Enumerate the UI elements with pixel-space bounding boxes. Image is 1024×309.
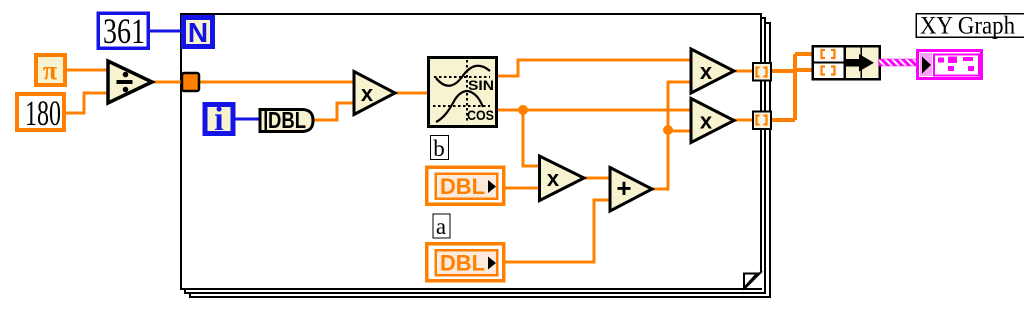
multiply1 node: [354, 72, 395, 115]
wire 180 to divide: [64, 93, 110, 113]
svg-text:x: x: [700, 59, 713, 84]
sincos node: [429, 58, 497, 127]
wire sin output: [495, 60, 692, 76]
for-loop frame page 3: [190, 23, 770, 297]
constant 180: [17, 93, 64, 133]
bundle node: [812, 45, 880, 79]
for-loop frame page 2: [185, 18, 765, 293]
divide node: [108, 61, 152, 103]
svg-text:N: N: [188, 17, 208, 48]
wire a to add: [502, 200, 612, 262]
control b DBL: [427, 167, 504, 204]
label a: [433, 214, 450, 239]
pi constant: [36, 55, 65, 85]
tunnel1: [753, 63, 771, 81]
wire cos branch down to multiply2: [523, 110, 542, 166]
page curl corner: [744, 271, 762, 289]
svg-text:x: x: [547, 166, 560, 191]
svg-text:SIN: SIN: [468, 78, 494, 93]
svg-text:x: x: [700, 109, 713, 134]
i iteration terminal: [205, 101, 233, 138]
wire multiply2 to add: [583, 177, 612, 180]
svg-text:DBL: DBL: [440, 174, 485, 199]
left tunnel: [182, 73, 199, 91]
wire cos output: [495, 109, 692, 112]
wire multiply3 to tunnel1: [733, 70, 755, 73]
svg-text:361: 361: [103, 11, 145, 51]
svg-text:i: i: [214, 101, 223, 138]
junction dot cos: [518, 105, 528, 115]
wire tunnel1 to bundle riser: [770, 54, 814, 120]
wire i to DBL convert: [233, 118, 262, 121]
svg-text:b: b: [433, 136, 445, 161]
constant 361: [98, 11, 148, 51]
svg-text:DBL: DBL: [440, 251, 485, 276]
cluster wire to XY graph: [879, 59, 919, 66]
svg-text:DBL: DBL: [268, 107, 306, 133]
wire pi to divide: [64, 69, 110, 72]
control a DBL: [427, 244, 504, 281]
wire riser branch to multiply4: [668, 130, 692, 133]
wire b to multiply2: [502, 187, 542, 190]
multiply4 node: [691, 99, 734, 143]
label b: [431, 136, 449, 162]
svg-text:180: 180: [25, 93, 61, 133]
DBL conversion node: [260, 107, 313, 133]
multiply3 node: [691, 49, 734, 93]
svg-text:a: a: [436, 214, 446, 239]
add node: [610, 168, 652, 212]
wire left tunnel to multiply: [197, 81, 356, 84]
svg-text:XY Graph: XY Graph: [920, 13, 1015, 40]
junction dot riser: [663, 125, 673, 135]
svg-text:x: x: [361, 81, 374, 106]
XY Graph terminal: [918, 51, 982, 79]
wire add output riser: [649, 82, 692, 189]
multiply2 node: [540, 156, 585, 201]
for-loop frame front border: [181, 14, 761, 289]
N count terminal: [184, 17, 213, 48]
svg-text:π: π: [43, 56, 57, 85]
label XY Graph: [916, 13, 1024, 40]
svg-text:+: +: [616, 173, 631, 203]
wire DBL convert to multiply: [312, 103, 356, 120]
svg-text:COS: COS: [467, 108, 494, 123]
wire multiply4 to tunnel2: [733, 119, 755, 122]
wire multiply to sincos: [393, 92, 430, 95]
wire divide to left tunnel: [149, 81, 184, 84]
tunnel2: [753, 112, 771, 130]
wire 361 to N: [148, 30, 184, 33]
